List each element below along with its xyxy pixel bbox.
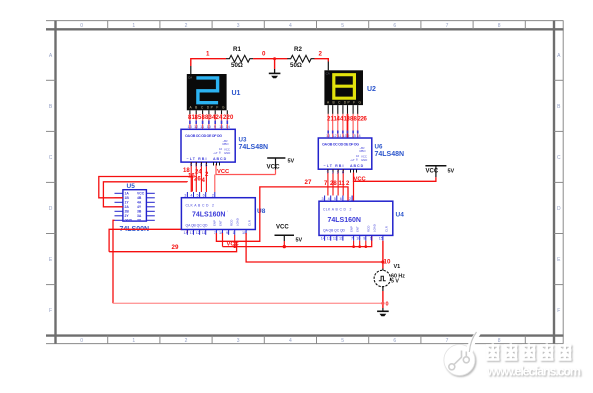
wire net 27	[216, 187, 348, 241]
svg-text:4: 4	[328, 197, 330, 201]
svg-text:1: 1	[206, 51, 210, 58]
svg-text:50Ω: 50Ω	[231, 62, 243, 69]
svg-text:27: 27	[305, 179, 312, 186]
svg-text:7: 7	[214, 231, 216, 235]
svg-text:7: 7	[190, 164, 192, 168]
net labels under U1	[188, 115, 234, 121]
svg-text:1: 1	[233, 231, 235, 235]
net labels under U6	[324, 181, 350, 187]
svg-text:50Ω: 50Ω	[290, 62, 302, 69]
U4 top pins	[325, 196, 353, 202]
svg-text:~: ~	[226, 210, 230, 212]
wire net 0 bottom	[113, 302, 383, 304]
U2 pins	[328, 105, 358, 114]
svg-text:U4: U4	[396, 212, 405, 219]
svg-text:5: 5	[197, 194, 199, 198]
svg-text:V1: V1	[394, 264, 401, 270]
blue tick marks U3 top	[190, 121, 227, 125]
svg-text:CLR: CLR	[385, 226, 389, 232]
svg-text:4B: 4B	[137, 196, 142, 200]
svg-text:74LS48N: 74LS48N	[239, 144, 269, 151]
svg-text:3A: 3A	[137, 214, 142, 218]
svg-text:RBO: RBO	[223, 142, 230, 146]
svg-text:RCO: RCO	[230, 219, 234, 226]
svg-text:VCC: VCC	[217, 169, 230, 175]
svg-text:3: 3	[237, 338, 240, 344]
svg-text:~LT: ~LT	[213, 151, 218, 155]
svg-text:1: 1	[332, 170, 334, 174]
svg-text:VCC: VCC	[354, 177, 367, 183]
wire to U5 2A	[103, 182, 187, 207]
svg-text:2A: 2A	[125, 205, 130, 209]
U8 bottom pins	[187, 230, 246, 235]
svg-text:8: 8	[498, 338, 501, 344]
svg-text:5 V: 5 V	[391, 279, 399, 285]
svg-text:A B C DP F G: A B C DP F G	[327, 100, 362, 104]
svg-text:1: 1	[132, 23, 135, 29]
svg-text:www.elecfans.com: www.elecfans.com	[486, 365, 581, 379]
svg-text:GND: GND	[224, 151, 230, 155]
svg-text:1: 1	[370, 237, 372, 241]
blue tick marks U6 top	[328, 131, 358, 134]
svg-text:ENP: ENP	[350, 226, 354, 232]
svg-text:F: F	[49, 308, 52, 314]
svg-text:13: 13	[327, 237, 331, 241]
svg-text:LOAD: LOAD	[236, 218, 240, 226]
svg-text:D: D	[557, 206, 561, 212]
wires U1 to U3	[190, 114, 227, 129]
resistor R1	[226, 46, 253, 69]
power VCC (right, 5V)	[425, 166, 454, 178]
svg-text:GND: GND	[361, 158, 367, 162]
svg-text:10: 10	[384, 259, 391, 266]
svg-text:26: 26	[194, 177, 201, 183]
svg-text:5: 5	[334, 197, 336, 201]
svg-text:QA QB QC QD: QA QB QC QD	[323, 229, 346, 233]
svg-text:CLR: CLR	[248, 220, 252, 226]
svg-text:5: 5	[341, 23, 344, 29]
svg-text:29: 29	[172, 244, 179, 251]
svg-text:VCC: VCC	[267, 164, 281, 171]
seven-seg display U2	[324, 62, 363, 106]
svg-text:CLK A B C D: CLK A B C D	[186, 204, 210, 208]
svg-text:CLK A B C D: CLK A B C D	[323, 208, 347, 212]
svg-text:A B C D: A B C D	[350, 164, 364, 168]
svg-text:9: 9	[214, 125, 216, 129]
U3 top pin numbers	[188, 125, 230, 129]
svg-text:15: 15	[379, 237, 383, 241]
svg-text:U8: U8	[257, 208, 266, 215]
svg-text:4: 4	[190, 194, 192, 198]
svg-text:28: 28	[330, 181, 337, 187]
power VCC (middle, 5V)	[275, 225, 303, 249]
wire net 1	[191, 59, 328, 69]
wire U8 pin to VCC rail	[234, 235, 236, 247]
wire V1 to ground	[382, 291, 384, 308]
svg-text:8: 8	[498, 23, 501, 29]
svg-text:U3: U3	[239, 137, 247, 144]
svg-text:~LT RBI: ~LT RBI	[324, 164, 344, 168]
ground (bottom)	[382, 308, 384, 311]
svg-text:14: 14	[184, 231, 188, 235]
svg-text:13: 13	[188, 125, 192, 129]
svg-text:R2: R2	[294, 46, 302, 53]
wire VCC net mid	[222, 233, 224, 247]
svg-text:2: 2	[185, 23, 188, 29]
U8 top pins	[187, 192, 214, 198]
svg-text:11: 11	[339, 237, 343, 241]
net labels under U3	[183, 168, 209, 184]
svg-text:OA OB OC OD OE OF OG: OA OB OC OD OE OF OG	[322, 142, 359, 146]
svg-text:U2: U2	[367, 86, 376, 93]
svg-text:GND: GND	[125, 219, 133, 223]
svg-text:12: 12	[333, 237, 337, 241]
U4 bottom pins	[325, 235, 383, 240]
wire VCC right	[354, 173, 436, 182]
wire net 0	[253, 58, 287, 60]
svg-text:VCC: VCC	[276, 225, 289, 231]
svg-text:3Y: 3Y	[137, 219, 142, 223]
U3 bottom pins	[191, 162, 206, 192]
svg-text:U5: U5	[127, 183, 136, 190]
wire VCC to U8 pin2	[214, 175, 216, 193]
svg-text:A B C D: A B C D	[213, 157, 227, 161]
resistor R2	[287, 46, 314, 69]
svg-text:1A: 1A	[125, 192, 130, 196]
clock source V1	[374, 264, 405, 291]
svg-text:F: F	[557, 308, 560, 314]
svg-text:24: 24	[195, 170, 202, 176]
svg-text:VCC: VCC	[227, 242, 240, 248]
svg-text:3: 3	[184, 194, 186, 198]
wire to U5 1B	[99, 177, 193, 198]
svg-text:2Y: 2Y	[125, 214, 130, 218]
svg-text:7: 7	[351, 237, 353, 241]
svg-text:13: 13	[190, 231, 194, 235]
svg-text:14: 14	[321, 237, 325, 241]
counter U4 74LS160N	[319, 201, 393, 235]
U1 pins	[190, 110, 227, 119]
svg-text:7: 7	[327, 170, 329, 174]
svg-text:11: 11	[202, 231, 206, 235]
svg-text:2: 2	[337, 170, 339, 174]
svg-text:15: 15	[219, 125, 223, 129]
seven-seg display U1	[187, 66, 227, 110]
svg-text:5V: 5V	[448, 168, 455, 174]
svg-text:10: 10	[207, 125, 211, 129]
svg-text:10: 10	[356, 237, 360, 241]
svg-text:A B C DP F G: A B C DP F G	[190, 105, 226, 109]
wire net 29	[109, 241, 237, 251]
svg-text:6: 6	[342, 170, 344, 174]
svg-text:1Y: 1Y	[125, 201, 130, 205]
svg-text:0: 0	[386, 302, 389, 308]
svg-text:VCC: VCC	[426, 168, 439, 174]
op IC U3 74LS48N	[181, 129, 235, 162]
svg-text:74LS160N: 74LS160N	[192, 212, 225, 219]
svg-text:74LS48N: 74LS48N	[375, 151, 405, 158]
svg-text:7: 7	[446, 23, 449, 29]
svg-text:2: 2	[185, 338, 188, 344]
svg-text:ENT: ENT	[219, 220, 223, 226]
U6 bottom pins	[328, 169, 343, 195]
svg-text:R1: R1	[233, 46, 241, 53]
counter U8 74LS160N	[181, 198, 255, 230]
svg-text:74LS160N: 74LS160N	[328, 217, 361, 224]
svg-text:6: 6	[393, 338, 396, 344]
svg-text:CA: CA	[326, 71, 330, 75]
svg-text:0: 0	[80, 23, 83, 29]
wire U5 GND down to net 0	[113, 220, 115, 303]
svg-text:U6: U6	[375, 143, 383, 150]
ground (top, net 0)	[274, 69, 276, 73]
svg-text:4: 4	[289, 338, 292, 344]
svg-text:1: 1	[195, 164, 197, 168]
svg-text:11: 11	[200, 125, 204, 129]
wire clock net 10	[246, 233, 383, 262]
svg-text:3: 3	[237, 23, 240, 29]
svg-text:QA QB QC QD: QA QB QC QD	[186, 224, 209, 228]
svg-text:4A: 4A	[137, 201, 142, 205]
svg-text:OA OB OC OD OE OF OG: OA OB OC OD OE OF OG	[185, 134, 222, 138]
svg-text:7: 7	[446, 338, 449, 344]
wires U4 pins to VCC rail	[354, 241, 366, 247]
svg-text:11: 11	[339, 181, 346, 187]
svg-text:ENP: ENP	[213, 220, 217, 226]
svg-text:2: 2	[319, 51, 323, 58]
svg-text:D: D	[49, 206, 53, 212]
svg-text:4Y: 4Y	[137, 205, 142, 209]
svg-text:C: C	[557, 155, 561, 161]
svg-text:RBO: RBO	[360, 149, 367, 153]
svg-text:RCO: RCO	[367, 225, 371, 232]
wires U2 to U6	[328, 114, 358, 138]
svg-text:6: 6	[393, 23, 396, 29]
svg-text:12: 12	[194, 125, 198, 129]
svg-text:9: 9	[363, 237, 365, 241]
svg-text:0: 0	[262, 51, 266, 58]
svg-text:0: 0	[80, 338, 83, 344]
svg-text:2: 2	[200, 164, 202, 168]
svg-text:6: 6	[340, 197, 342, 201]
svg-text:5V: 5V	[296, 238, 303, 244]
U6 top pin numbers	[326, 134, 361, 138]
svg-text:LOAD: LOAD	[373, 224, 377, 232]
svg-text:2: 2	[349, 197, 351, 201]
wire U4 clk to V1	[382, 241, 384, 269]
svg-text:~LT RBI: ~LT RBI	[187, 157, 207, 161]
svg-text:14: 14	[226, 125, 230, 129]
svg-text:2B: 2B	[125, 210, 130, 214]
svg-text:3B: 3B	[137, 210, 142, 214]
svg-text:CA: CA	[188, 76, 192, 80]
power VCC (left, 5V)	[267, 158, 295, 175]
svg-text:1B: 1B	[125, 196, 130, 200]
svg-text:ENT: ENT	[356, 226, 360, 232]
svg-text:1: 1	[132, 338, 135, 344]
svg-text:5V: 5V	[288, 159, 295, 165]
wire net 29 left leg	[109, 229, 187, 251]
logo tail	[464, 332, 481, 354]
svg-text:2: 2	[212, 194, 214, 198]
svg-text:3: 3	[322, 197, 324, 201]
wire U3 pin16 to VCC	[216, 164, 276, 175]
svg-text:C: C	[49, 155, 53, 161]
svg-text:~LT: ~LT	[350, 158, 355, 162]
svg-text:4: 4	[289, 23, 292, 29]
svg-text:6: 6	[203, 194, 205, 198]
svg-text:U1: U1	[232, 90, 241, 97]
border frame	[46, 21, 564, 344]
svg-text:6: 6	[205, 164, 207, 168]
svg-text:12: 12	[196, 231, 200, 235]
op IC U6 74LS48N	[318, 138, 372, 169]
svg-text:VCC: VCC	[137, 192, 145, 196]
svg-text:5: 5	[341, 338, 344, 344]
svg-text:9: 9	[226, 231, 228, 235]
net labels under U2	[327, 117, 368, 123]
quad NAND U5 74LS00N	[115, 190, 155, 223]
svg-text:2: 2	[350, 208, 352, 212]
wire net 2	[314, 59, 328, 62]
svg-text:2: 2	[212, 204, 214, 208]
